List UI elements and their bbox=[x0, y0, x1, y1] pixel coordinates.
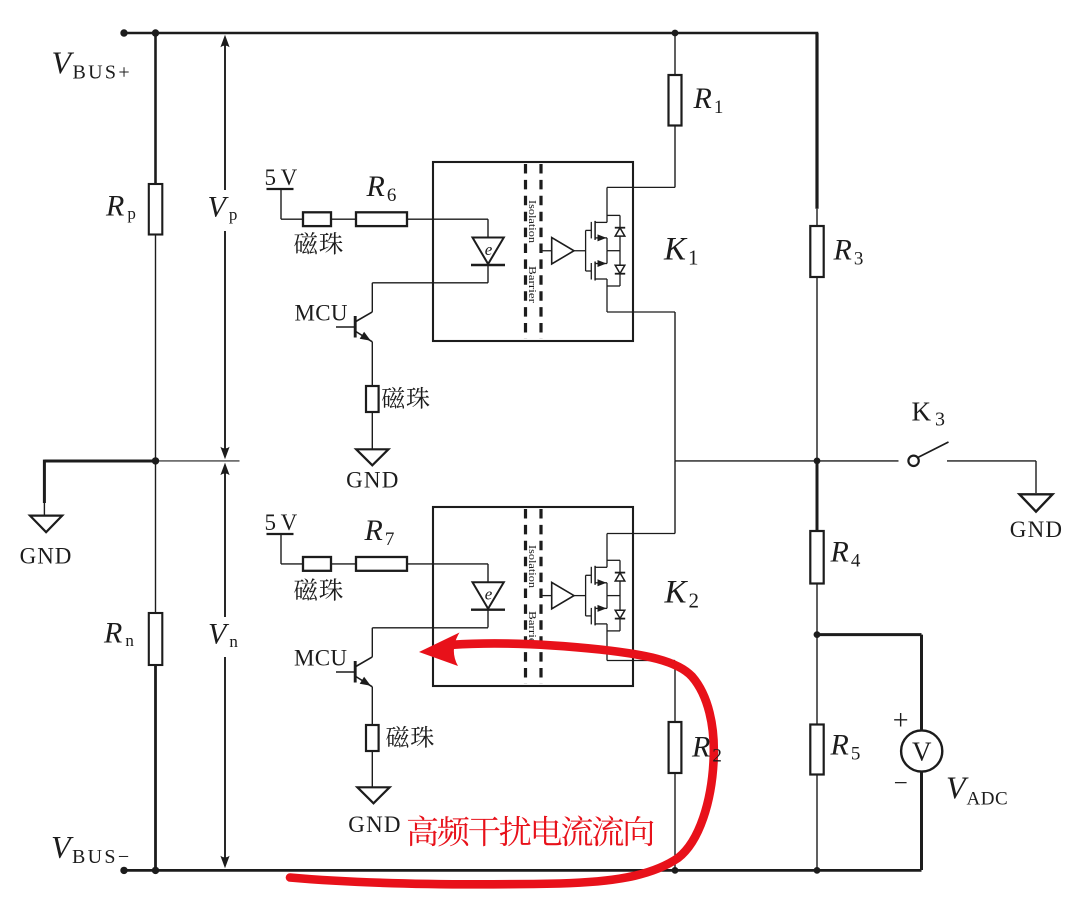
svg-text:MCU: MCU bbox=[294, 646, 347, 671]
svg-text:GND: GND bbox=[20, 544, 73, 569]
svg-text:Isolation: Isolation bbox=[526, 200, 537, 244]
svg-text:GND: GND bbox=[1010, 517, 1063, 542]
svg-text:V: V bbox=[912, 737, 932, 767]
svg-text:5 V: 5 V bbox=[265, 510, 298, 535]
svg-text:e: e bbox=[485, 585, 493, 604]
svg-text:+: + bbox=[893, 706, 909, 737]
svg-text:e: e bbox=[485, 240, 493, 259]
svg-text:GND: GND bbox=[348, 812, 401, 837]
svg-text:Barrier: Barrier bbox=[526, 266, 537, 304]
svg-text:MCU: MCU bbox=[295, 301, 348, 326]
svg-text:Isolation: Isolation bbox=[526, 545, 537, 589]
svg-text:GND: GND bbox=[346, 468, 399, 493]
svg-text:−: − bbox=[894, 770, 908, 797]
svg-text:5 V: 5 V bbox=[265, 165, 298, 190]
